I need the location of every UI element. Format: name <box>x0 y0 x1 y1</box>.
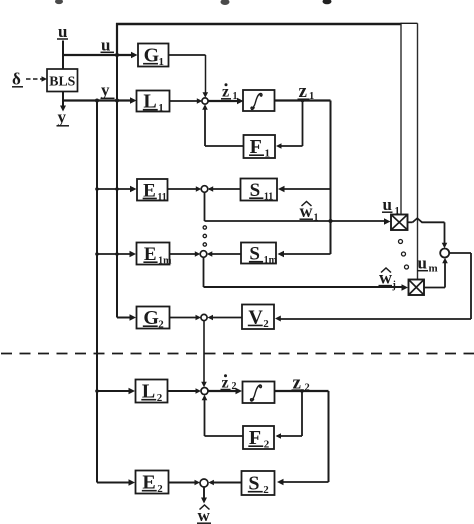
svg-text:j: j <box>392 280 396 291</box>
label zdot1 <box>221 83 238 102</box>
label um (multiplier) <box>417 254 438 275</box>
wire J1 to integrator 1 (dot z1) <box>208 98 244 104</box>
wire u horizontal to G1 <box>62 52 138 58</box>
wire S11 output into junction J2 <box>208 186 241 192</box>
svg-text:u: u <box>58 22 67 41</box>
svg-text:w: w <box>300 201 313 221</box>
svg-text:11: 11 <box>157 192 166 203</box>
block L1 <box>137 91 170 115</box>
caption fragment 2 (cropped text at top edge) <box>221 0 230 5</box>
svg-text:1: 1 <box>395 206 400 217</box>
wire F2 feedback loop <box>202 391 302 439</box>
wire summing circle output feedback to V2 <box>275 253 471 322</box>
block E11 <box>137 179 168 203</box>
svg-text:BLS: BLS <box>49 74 75 89</box>
summing circle <box>440 249 449 258</box>
junction J2 <box>201 186 208 193</box>
svg-text:2: 2 <box>263 484 269 496</box>
block F2 <box>243 426 274 451</box>
svg-text:1: 1 <box>264 148 270 160</box>
dashed separator line <box>1 353 474 355</box>
block G1 <box>138 44 169 69</box>
svg-text:1: 1 <box>158 102 164 114</box>
wire y horizontal to L1 <box>63 97 137 103</box>
caption fragment 3 (cropped text at top edge) <box>323 0 332 4</box>
wire J4 output down into junction J5 <box>201 321 207 387</box>
block E2 <box>136 471 169 496</box>
svg-text:2: 2 <box>158 319 164 331</box>
block F1 <box>244 135 276 160</box>
multiplier U1 <box>391 215 408 231</box>
ellipsis dots between J2 and J3 <box>203 226 206 246</box>
label u (on u line) <box>101 35 115 54</box>
svg-text:2: 2 <box>305 383 310 394</box>
svg-text:y: y <box>101 81 110 100</box>
block V2 <box>242 305 274 330</box>
svg-text:11: 11 <box>264 192 273 203</box>
wire J6 output down to w-hat <box>201 487 207 504</box>
label u1 (multiplier) <box>382 195 400 217</box>
block E1m <box>137 243 173 267</box>
wire vertical drop to multiplier UM <box>417 23 419 279</box>
block integrator 2 <box>243 382 275 404</box>
multiplier UM <box>409 280 425 296</box>
wire y-bus to E1m <box>97 251 136 257</box>
junction J5 <box>201 388 208 395</box>
wire G1 output down into junction J1 <box>169 55 209 98</box>
svg-text:δ: δ <box>12 70 21 89</box>
junction J6 <box>200 479 208 487</box>
wire BLS output down to y <box>60 92 66 112</box>
svg-text:u: u <box>383 195 392 214</box>
wire F1 feedback loop <box>202 101 302 149</box>
junction J3 <box>200 251 207 258</box>
label u (top input) <box>57 22 68 41</box>
junction blob u line / u-bus <box>115 53 119 57</box>
wire E11 output into junction J2 <box>168 186 202 192</box>
junction blob y line / y-bus <box>95 99 99 103</box>
label z2 <box>292 373 310 394</box>
svg-text:1: 1 <box>158 56 164 68</box>
block L2 <box>136 380 168 405</box>
junction blob what1/z1-bus crossing <box>329 219 333 223</box>
wire L1 output into junction J1 <box>170 98 202 104</box>
junction blob y-bus row L2 <box>95 389 99 393</box>
label whatj <box>379 268 396 292</box>
label y (bottom output) <box>57 108 70 127</box>
block BLS <box>47 69 78 92</box>
svg-text:2: 2 <box>157 483 163 495</box>
label zdot2 <box>221 374 237 392</box>
wire top feedback extension to um drop <box>401 22 418 24</box>
svg-text:1m: 1m <box>264 255 278 266</box>
label delta <box>12 70 23 89</box>
junction blob y-bus row E1m <box>95 252 119 256</box>
svg-text:w: w <box>379 268 392 288</box>
junction blob z1/F1 tap <box>301 99 305 103</box>
junction blob z2/F2 tap <box>300 389 304 393</box>
wire y-bus to E11 <box>97 186 137 192</box>
wire u-bus down to G2 <box>117 55 136 321</box>
wire E2 output into junction J6 <box>169 480 201 486</box>
label what (bottom output) <box>197 505 211 524</box>
block S2 <box>242 471 275 496</box>
wire S1m output into junction J3 <box>207 251 241 257</box>
svg-text:1: 1 <box>314 213 319 224</box>
svg-text:1: 1 <box>233 91 238 102</box>
wire J5 to integrator 2 (dot z2) <box>208 388 242 394</box>
wire z1 output and loop down to S1m <box>275 101 331 258</box>
junction J1 <box>202 98 208 104</box>
wire E1m output into junction J3 <box>170 251 200 257</box>
junction J4 <box>201 314 207 320</box>
svg-text:m: m <box>429 263 438 275</box>
svg-text:y: y <box>58 108 67 127</box>
wire UM output up to summing circle <box>425 258 448 288</box>
wire vertical drop to multiplier U1 <box>400 24 402 214</box>
wire U1 output to summing circle <box>408 218 448 248</box>
wire S2 output into junction J6 <box>208 480 241 486</box>
wire u input vertical into BLS <box>62 41 64 70</box>
label what1 <box>300 201 319 224</box>
svg-text:2: 2 <box>263 318 269 330</box>
wire u-bus up to top feedback line <box>116 23 118 55</box>
svg-text:u: u <box>418 254 427 273</box>
svg-text:1m: 1m <box>158 256 172 267</box>
junction blob y line / u-bus crossing <box>115 99 119 103</box>
ellipsis dots between U1 and UM <box>399 240 409 270</box>
block G2 <box>137 307 170 331</box>
svg-text:1: 1 <box>309 91 314 102</box>
block S1m <box>241 243 278 267</box>
wire L2 output into junction J5 <box>168 388 202 394</box>
svg-text:2: 2 <box>264 439 270 451</box>
label y (on y line) <box>101 81 115 100</box>
junction blob y-bus row E11 <box>95 187 119 191</box>
wire top feedback line <box>116 23 402 26</box>
wire S11 feed from z1 bus <box>278 186 331 192</box>
wire delta dashed arrow into BLS <box>26 76 47 82</box>
wire y-bus corner to E2 <box>97 479 135 485</box>
svg-text:2: 2 <box>157 392 163 404</box>
wire G2 output into junction J4 <box>170 315 201 321</box>
wire y-bus to L2 <box>97 388 135 394</box>
svg-text:2: 2 <box>232 381 237 392</box>
wire V2 output into junction J4 <box>208 315 243 321</box>
label z1 <box>298 81 315 102</box>
wire z2 output and loop down to S2 <box>275 391 329 485</box>
block S11 <box>241 179 278 203</box>
block integrator 1 <box>243 90 275 111</box>
caption fragment 1 (cropped text at top edge) <box>55 0 63 4</box>
wire J2 output what-1 line to U1 <box>205 192 391 225</box>
wire J3 output what-j line to UM <box>204 257 409 291</box>
wire y-bus down left side <box>96 101 98 483</box>
